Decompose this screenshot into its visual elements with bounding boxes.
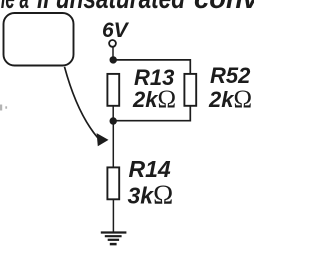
wire: bottom node to R14 <box>112 121 114 167</box>
wire: top node to R52 branch <box>113 60 190 74</box>
label R52 2kΩ <box>208 63 252 113</box>
svg-text:3kΩ: 3kΩ <box>128 180 174 210</box>
node: top junction dot <box>110 56 117 63</box>
svg-text:R52: R52 <box>210 63 251 88</box>
ground symbol <box>101 233 127 245</box>
wire: R52 bottom to bottom rail <box>113 106 190 121</box>
resistor R13 (box) <box>107 74 119 106</box>
callout arrow curve <box>65 67 98 138</box>
label R14 3kΩ <box>128 156 174 209</box>
label R13 2kΩ <box>132 65 176 113</box>
clipped gray mark at left edge <box>0 105 7 111</box>
callout arrowhead <box>97 133 109 146</box>
wire: R13 bottom to bottom node <box>112 106 114 121</box>
callout bubble <box>4 13 74 66</box>
supply terminal (open circle) <box>109 40 116 47</box>
node: bottom junction dot <box>110 117 117 124</box>
resistor R52 (box) <box>184 74 196 106</box>
svg-text:2kΩ: 2kΩ <box>132 86 176 113</box>
resistor R14 (box) <box>107 167 119 199</box>
svg-text:6V: 6V <box>102 19 130 42</box>
svg-text:2kΩ: 2kΩ <box>208 86 252 113</box>
wire: R14 to ground <box>112 199 114 232</box>
svg-text:R14: R14 <box>129 156 171 182</box>
wire: terminal to top node <box>112 47 114 60</box>
clipped caption text at top <box>0 0 260 15</box>
svg-text:conv: conv <box>194 0 254 15</box>
